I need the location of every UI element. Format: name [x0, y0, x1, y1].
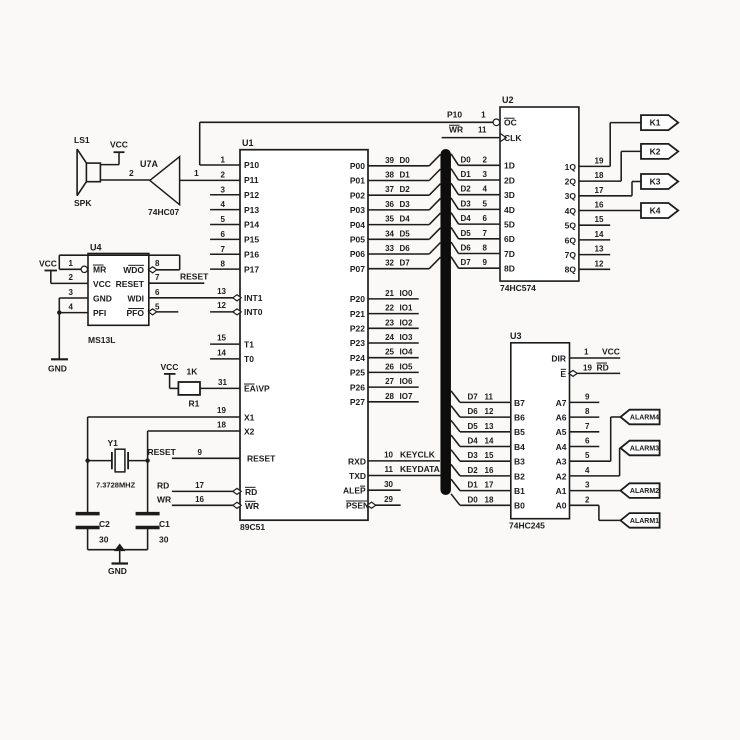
svg-text:18: 18 — [595, 171, 604, 180]
svg-text:KEYDATA: KEYDATA — [400, 464, 440, 474]
wire PFO stub — [157, 311, 178, 313]
svg-text:3D: 3D — [504, 190, 515, 200]
svg-text:7D: 7D — [504, 249, 515, 259]
svg-text:8Q: 8Q — [565, 265, 577, 275]
svg-text:B4: B4 — [514, 442, 525, 452]
svg-text:P05: P05 — [350, 235, 365, 245]
svg-text:INT0: INT0 — [244, 307, 263, 317]
svg-text:6: 6 — [483, 214, 488, 223]
svg-text:K3: K3 — [650, 177, 661, 187]
svg-text:RD: RD — [157, 480, 169, 490]
svg-text:6Q: 6Q — [565, 235, 577, 245]
svg-text:MR: MR — [93, 265, 106, 275]
svg-text:18: 18 — [485, 495, 494, 504]
svg-text:A5: A5 — [556, 427, 567, 437]
svg-text:14: 14 — [217, 348, 226, 357]
svg-text:7: 7 — [155, 273, 160, 282]
svg-text:8: 8 — [585, 407, 590, 416]
svg-text:WR: WR — [157, 494, 171, 504]
svg-text:32: 32 — [385, 259, 394, 268]
svg-text:9: 9 — [585, 392, 590, 401]
connector tag K4 — [641, 203, 678, 218]
svg-text:D5: D5 — [400, 229, 411, 238]
IC U4 MS13L — [88, 254, 149, 326]
svg-text:B0: B0 — [514, 501, 525, 511]
svg-text:U4: U4 — [90, 243, 102, 253]
svg-text:B5: B5 — [514, 427, 525, 437]
svg-text:RD: RD — [597, 363, 609, 373]
svg-text:PSEN: PSEN — [346, 501, 369, 511]
wire WDI-INT1 — [149, 297, 237, 299]
svg-text:12: 12 — [595, 259, 604, 268]
svg-text:P10: P10 — [447, 110, 462, 120]
svg-text:7: 7 — [221, 245, 226, 254]
svg-text:P14: P14 — [244, 220, 259, 230]
svg-text:VCC: VCC — [110, 140, 128, 150]
svg-text:B6: B6 — [514, 413, 525, 423]
svg-text:16: 16 — [195, 495, 204, 504]
svg-text:P25: P25 — [350, 368, 365, 378]
svg-text:74HC245: 74HC245 — [509, 521, 545, 531]
svg-text:D2: D2 — [400, 185, 411, 194]
wire 4Q-K4 — [579, 210, 641, 212]
svg-text:D3: D3 — [400, 200, 411, 209]
svg-text:3: 3 — [221, 185, 226, 194]
wire X2 — [148, 430, 240, 432]
U2 OC pin 1 — [493, 119, 500, 126]
svg-text:1: 1 — [221, 156, 226, 165]
svg-text:IO6: IO6 — [400, 377, 413, 386]
svg-text:8: 8 — [483, 244, 488, 253]
svg-text:28: 28 — [385, 392, 394, 401]
svg-text:2: 2 — [483, 155, 488, 164]
svg-text:D4: D4 — [400, 215, 411, 224]
svg-text:3: 3 — [585, 481, 590, 490]
svg-text:A6: A6 — [556, 413, 567, 423]
svg-text:PFO: PFO — [127, 308, 145, 318]
svg-text:\VP: \VP — [256, 384, 270, 394]
svg-text:5Q: 5Q — [565, 221, 577, 231]
svg-text:2Q: 2Q — [565, 177, 577, 187]
svg-text:X2: X2 — [244, 427, 255, 437]
svg-text:3Q: 3Q — [565, 191, 577, 201]
svg-text:4: 4 — [69, 303, 74, 312]
svg-text:6D: 6D — [504, 234, 515, 244]
svg-text:P12: P12 — [244, 190, 259, 200]
svg-text:ALARM4: ALARM4 — [630, 415, 659, 422]
svg-text:4D: 4D — [504, 205, 515, 215]
svg-text:EA: EA — [244, 384, 256, 394]
svg-text:2: 2 — [129, 168, 134, 178]
svg-text:14: 14 — [595, 230, 604, 239]
svg-text:5: 5 — [155, 303, 160, 312]
svg-text:36: 36 — [385, 200, 394, 209]
svg-text:U2: U2 — [502, 95, 514, 105]
svg-text:C2: C2 — [99, 519, 110, 529]
wire P10 net — [200, 164, 240, 166]
connector tag ALARM4 — [621, 410, 660, 425]
svg-text:P11: P11 — [244, 175, 259, 185]
svg-text:WR: WR — [449, 125, 463, 135]
svg-text:38: 38 — [385, 171, 394, 180]
svg-text:WDI: WDI — [127, 293, 144, 303]
svg-text:16: 16 — [485, 466, 494, 475]
svg-text:A1: A1 — [556, 486, 567, 496]
svg-text:IO0: IO0 — [400, 289, 413, 298]
svg-text:D1: D1 — [400, 171, 411, 180]
svg-text:1: 1 — [69, 259, 74, 268]
svg-text:P16: P16 — [244, 249, 259, 259]
svg-text:22: 22 — [385, 304, 394, 313]
svg-text:KEYCLK: KEYCLK — [400, 450, 436, 460]
svg-text:P23: P23 — [350, 338, 365, 348]
IC U1 89C51 — [240, 150, 368, 521]
svg-text:RESET: RESET — [247, 454, 276, 464]
wire — [100, 179, 149, 181]
svg-text:13: 13 — [485, 422, 494, 431]
buffer U7A — [150, 157, 180, 205]
crystal Y1 — [111, 452, 113, 469]
svg-text:P02: P02 — [350, 190, 365, 200]
wire stubs pins 3-8 — [210, 194, 240, 196]
svg-text:8D: 8D — [504, 264, 515, 274]
svg-text:A0: A0 — [556, 501, 567, 511]
wire A2-ALARM3 — [570, 475, 620, 477]
svg-text:33: 33 — [385, 244, 394, 253]
svg-text:X1: X1 — [244, 412, 255, 422]
svg-text:U3: U3 — [510, 331, 522, 341]
svg-text:7: 7 — [585, 422, 590, 431]
svg-text:INT1: INT1 — [244, 293, 263, 303]
svg-text:1Q: 1Q — [565, 162, 577, 172]
svg-text:31: 31 — [218, 378, 227, 387]
svg-text:SPK: SPK — [74, 198, 92, 208]
svg-text:8: 8 — [155, 259, 160, 268]
svg-text:37: 37 — [385, 185, 394, 194]
svg-text:6: 6 — [585, 437, 590, 446]
svg-text:P22: P22 — [350, 324, 365, 334]
svg-text:P: P — [360, 486, 366, 496]
svg-text:13: 13 — [217, 287, 226, 296]
svg-text:IO2: IO2 — [400, 318, 413, 327]
svg-text:1: 1 — [481, 110, 486, 120]
svg-text:7.3728MHZ: 7.3728MHZ — [96, 481, 136, 490]
wire 2Q-K2 — [579, 180, 621, 182]
U3 B7-B0 inputs — [451, 391, 460, 403]
svg-text:WDO: WDO — [123, 265, 144, 275]
U2 CLK pin 11 — [442, 137, 500, 139]
wire 3Q-K3 — [579, 195, 632, 197]
svg-text:P27: P27 — [350, 397, 365, 407]
ground (U4) — [59, 297, 88, 299]
svg-text:A7: A7 — [556, 398, 567, 408]
svg-text:MS13L: MS13L — [88, 335, 115, 345]
svg-text:RXD: RXD — [348, 456, 366, 466]
svg-text:ALARM2: ALARM2 — [630, 488, 659, 495]
connector tag K3 — [641, 174, 678, 189]
svg-text:1K: 1K — [187, 367, 199, 377]
wire — [180, 179, 240, 181]
svg-text:5: 5 — [585, 451, 590, 460]
svg-text:24: 24 — [385, 333, 394, 342]
connector tag K1 — [641, 115, 678, 130]
svg-text:7Q: 7Q — [565, 250, 577, 260]
resistor R1 — [178, 382, 200, 395]
svg-text:D7: D7 — [468, 392, 479, 401]
svg-text:P10: P10 — [244, 160, 259, 170]
svg-text:7: 7 — [483, 229, 488, 238]
svg-text:WR: WR — [245, 501, 259, 511]
wire — [100, 164, 119, 166]
svg-text:T1: T1 — [244, 339, 254, 349]
svg-text:P21: P21 — [350, 309, 365, 319]
svg-text:12: 12 — [217, 301, 226, 310]
ground (crystal) — [88, 549, 148, 551]
svg-text:74HC574: 74HC574 — [500, 283, 536, 293]
svg-text:GND: GND — [93, 293, 112, 303]
svg-text:U1: U1 — [242, 138, 254, 148]
svg-text:2: 2 — [69, 273, 74, 282]
IC U3 74HC245 — [511, 343, 570, 519]
wire 1Q-K1 — [579, 165, 610, 167]
svg-text:T0: T0 — [244, 354, 254, 364]
svg-text:4: 4 — [585, 466, 590, 475]
svg-text:17: 17 — [195, 481, 204, 490]
svg-text:P20: P20 — [350, 294, 365, 304]
svg-text:2: 2 — [585, 495, 590, 504]
svg-text:K4: K4 — [650, 206, 661, 216]
svg-text:15: 15 — [485, 451, 494, 460]
svg-text:R1: R1 — [189, 399, 200, 409]
svg-text:A2: A2 — [556, 471, 567, 481]
svg-text:10: 10 — [384, 451, 393, 460]
svg-text:16: 16 — [595, 201, 604, 210]
svg-text:B1: B1 — [514, 486, 525, 496]
svg-text:B2: B2 — [514, 471, 525, 481]
svg-text:D1: D1 — [461, 170, 472, 179]
connector tag ALARM3 — [621, 441, 660, 456]
capacitor C1 — [136, 512, 160, 516]
svg-text:D3: D3 — [461, 199, 472, 208]
svg-text:27: 27 — [385, 377, 394, 386]
svg-text:13: 13 — [595, 245, 604, 254]
svg-text:17: 17 — [485, 481, 494, 490]
svg-text:11: 11 — [385, 465, 394, 474]
svg-text:18: 18 — [217, 421, 226, 430]
svg-text:VCC: VCC — [93, 279, 111, 289]
svg-text:RD: RD — [245, 487, 257, 497]
connector tag ALARM2 — [621, 483, 660, 498]
svg-text:P04: P04 — [350, 220, 365, 230]
wire R1-EA/VP — [200, 387, 240, 389]
svg-text:P24: P24 — [350, 353, 365, 363]
capacitor C2 — [76, 512, 100, 516]
svg-text:6: 6 — [155, 288, 160, 297]
svg-text:CLK: CLK — [504, 133, 522, 143]
svg-text:D4: D4 — [468, 437, 479, 446]
svg-text:74HC07: 74HC07 — [148, 207, 179, 217]
svg-text:19: 19 — [217, 406, 226, 415]
svg-text:14: 14 — [485, 437, 494, 446]
svg-text:5: 5 — [221, 215, 226, 224]
svg-text:D5: D5 — [461, 229, 472, 238]
svg-text:VCC: VCC — [602, 347, 620, 357]
svg-text:A3: A3 — [556, 457, 567, 467]
svg-text:4: 4 — [221, 200, 226, 209]
svg-text:DIR: DIR — [551, 353, 566, 363]
svg-text:D0: D0 — [468, 495, 479, 504]
svg-text:11: 11 — [478, 126, 487, 135]
svg-text:D6: D6 — [468, 407, 479, 416]
svg-text:B7: B7 — [514, 398, 525, 408]
svg-text:35: 35 — [385, 215, 394, 224]
svg-text:K2: K2 — [650, 146, 661, 156]
svg-text:GND: GND — [48, 364, 67, 374]
wire stubs 5Q-8Q — [579, 224, 610, 226]
svg-text:D2: D2 — [461, 185, 472, 194]
wire X1 — [88, 416, 240, 418]
svg-text:ALARM1: ALARM1 — [630, 518, 659, 525]
svg-text:30: 30 — [99, 535, 109, 545]
svg-text:30: 30 — [384, 480, 393, 489]
svg-text:11: 11 — [485, 392, 494, 401]
svg-text:P01: P01 — [350, 176, 365, 186]
svg-text:IO7: IO7 — [400, 392, 413, 401]
svg-text:D2: D2 — [468, 466, 479, 475]
svg-text:21: 21 — [385, 289, 394, 298]
svg-text:LS1: LS1 — [74, 135, 90, 145]
svg-text:1: 1 — [584, 348, 589, 357]
svg-text:4: 4 — [483, 185, 488, 194]
svg-text:VCC: VCC — [39, 259, 57, 269]
svg-text:RESET: RESET — [148, 447, 177, 457]
svg-text:5: 5 — [483, 199, 488, 208]
svg-text:RESET: RESET — [180, 272, 209, 282]
IC U2 74HC574 — [500, 107, 579, 281]
svg-text:6: 6 — [221, 230, 226, 239]
wire A3-ALARM4 — [570, 460, 611, 462]
svg-text:IO4: IO4 — [400, 348, 413, 357]
svg-text:12: 12 — [485, 407, 494, 416]
svg-text:5D: 5D — [504, 220, 515, 230]
svg-text:4Q: 4Q — [565, 206, 577, 216]
svg-text:9: 9 — [198, 448, 203, 457]
svg-text:D0: D0 — [400, 156, 411, 165]
svg-text:9: 9 — [483, 258, 488, 267]
svg-text:3: 3 — [69, 288, 74, 297]
svg-text:1: 1 — [194, 168, 199, 178]
svg-text:IO5: IO5 — [400, 362, 413, 371]
svg-text:23: 23 — [385, 318, 394, 327]
svg-text:GND: GND — [108, 566, 127, 576]
svg-text:D3: D3 — [468, 451, 479, 460]
svg-text:19: 19 — [583, 364, 592, 373]
svg-text:C1: C1 — [159, 519, 170, 529]
svg-text:2D: 2D — [504, 175, 515, 185]
svg-text:34: 34 — [385, 229, 394, 238]
svg-text:89C51: 89C51 — [240, 522, 265, 532]
svg-text:P17: P17 — [244, 264, 259, 274]
svg-text:P06: P06 — [350, 249, 365, 259]
svg-text:39: 39 — [385, 156, 394, 165]
svg-text:D7: D7 — [461, 258, 472, 267]
svg-text:OC: OC — [504, 118, 517, 128]
svg-text:IO3: IO3 — [400, 333, 413, 342]
svg-text:K1: K1 — [650, 118, 661, 128]
svg-text:U7A: U7A — [140, 159, 159, 169]
svg-text:P07: P07 — [350, 264, 365, 274]
svg-text:D0: D0 — [461, 155, 472, 164]
wire A1-ALARM2 — [570, 490, 621, 492]
svg-text:1D: 1D — [504, 161, 515, 171]
connector tag K2 — [641, 144, 678, 159]
svg-text:B3: B3 — [514, 457, 525, 467]
svg-text:17: 17 — [595, 186, 604, 195]
svg-text:D7: D7 — [400, 259, 411, 268]
svg-text:A4: A4 — [556, 442, 567, 452]
svg-text:D4: D4 — [461, 214, 472, 223]
svg-text:IO1: IO1 — [400, 304, 413, 313]
svg-text:P03: P03 — [350, 205, 365, 215]
svg-text:19: 19 — [595, 156, 604, 165]
svg-text:15: 15 — [595, 215, 604, 224]
svg-text:D6: D6 — [400, 244, 411, 253]
svg-text:D5: D5 — [468, 422, 479, 431]
svg-text:15: 15 — [217, 334, 226, 343]
svg-text:D6: D6 — [461, 244, 472, 253]
connector tag ALARM1 — [621, 513, 660, 528]
svg-text:P26: P26 — [350, 382, 365, 392]
wire A0-ALARM1 — [570, 504, 599, 506]
svg-text:2: 2 — [221, 170, 226, 179]
svg-text:Y1: Y1 — [108, 438, 119, 448]
svg-text:30: 30 — [159, 535, 169, 545]
svg-text:D1: D1 — [468, 481, 479, 490]
svg-text:P15: P15 — [244, 235, 259, 245]
svg-text:ALE: ALE — [343, 486, 360, 496]
svg-text:26: 26 — [385, 362, 394, 371]
svg-text:29: 29 — [384, 495, 393, 504]
speaker LS1 — [86, 163, 100, 182]
wire WDO-MR loop — [59, 268, 81, 270]
svg-text:PFI: PFI — [93, 308, 106, 318]
svg-text:P00: P00 — [350, 161, 365, 171]
wire RESET net (U4) — [149, 282, 205, 284]
data bus — [440, 154, 451, 490]
svg-text:E: E — [560, 369, 566, 379]
svg-text:3: 3 — [483, 170, 488, 179]
wire stubs A7-A4 — [570, 401, 600, 403]
svg-text:RESET: RESET — [116, 279, 145, 289]
svg-text:P13: P13 — [244, 205, 259, 215]
svg-text:ALARM3: ALARM3 — [630, 446, 659, 453]
svg-text:VCC: VCC — [161, 362, 179, 372]
svg-text:TXD: TXD — [349, 471, 366, 481]
svg-text:25: 25 — [385, 348, 394, 357]
U2 1D-8D inputs — [451, 154, 459, 166]
svg-text:8: 8 — [221, 260, 226, 269]
